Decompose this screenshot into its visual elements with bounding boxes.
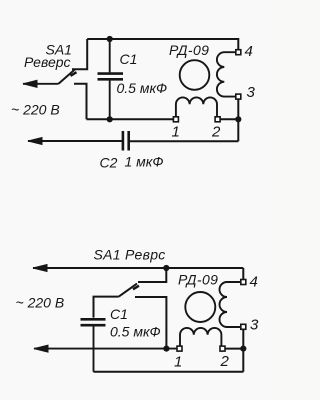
wire top rail line A with left arrow (33, 265, 243, 272)
switch SA1 pole wire (94, 297, 119, 318)
svg-text:3: 3 (250, 317, 259, 334)
wire top rail (87, 39, 238, 50)
terminal 4 (236, 50, 241, 55)
svg-text:1: 1 (172, 124, 180, 141)
capacitor C1 (98, 39, 124, 119)
wire mid rail to terminal 1 (87, 118, 175, 120)
wire bottom rail (94, 371, 244, 373)
winding L1 (terminals 1-2) (180, 328, 221, 346)
terminal 4 (241, 280, 246, 285)
svg-text:0.5 мкФ: 0.5 мкФ (110, 324, 161, 340)
capacitor C1 (81, 319, 106, 372)
wire bottom rail right segment (129, 140, 238, 142)
wire terminal 3 down to right node and down to bottom rail (237, 99, 239, 142)
svg-text:1 мкФ: 1 мкФ (125, 154, 164, 170)
svg-text:2: 2 (211, 124, 221, 141)
svg-text:~ 220 В: ~ 220 В (11, 102, 60, 118)
winding L2 (terminals 3-4) (217, 52, 236, 96)
switch SA1 lower contact down to rail B (135, 297, 166, 349)
wire ~220V line A with left arrow (23, 80, 59, 87)
svg-text:РД-09: РД-09 (169, 42, 209, 58)
terminal 3 (236, 94, 241, 99)
svg-text:SA1 Реврс: SA1 Реврс (94, 247, 166, 263)
wire top rail corner to terminal 4 (242, 268, 244, 280)
winding L1 (terminals 1-2) (176, 97, 217, 117)
switch SA1 upper contact (from rail) (138, 268, 166, 282)
switch SA1 lever (59, 70, 77, 84)
svg-text:4: 4 (245, 43, 253, 60)
wire terminal 3 down to junction (242, 329, 244, 372)
svg-text:РД-09: РД-09 (178, 272, 218, 288)
svg-text:~ 220 В: ~ 220 В (16, 295, 65, 311)
svg-text:Реверс: Реверс (24, 54, 71, 70)
terminal 1 (173, 117, 178, 122)
wire ~220V line B with left arrow (28, 138, 123, 145)
svg-text:3: 3 (247, 84, 256, 101)
motor РД-09 rotor circle (185, 292, 215, 322)
wire terminal 2 to junction (224, 348, 243, 350)
node switch feed junction (163, 265, 169, 271)
svg-text:2: 2 (220, 353, 230, 370)
node terminals 2-3 junction (240, 346, 246, 352)
terminal 2 (215, 117, 220, 122)
capacitor C2 (123, 131, 129, 151)
svg-text:С2: С2 (100, 155, 118, 171)
svg-text:4: 4 (250, 274, 258, 291)
wire ~220V line B with left arrow to terminal 1 (34, 345, 178, 352)
node lower contact junction (163, 346, 169, 352)
wire terminal 2 to right node (219, 118, 238, 120)
svg-text:1: 1 (174, 354, 182, 371)
svg-text:С1: С1 (110, 306, 128, 322)
node C1 top junction (107, 36, 113, 42)
terminal 3 (241, 324, 246, 329)
motor РД-09 rotor circle (180, 60, 210, 90)
node terminals 2-3 junction (235, 116, 241, 122)
terminal 1 (177, 346, 182, 351)
terminal 2 (220, 346, 225, 351)
switch SA1 upper contact to top rail (72, 39, 87, 69)
svg-text:0.5 мкФ: 0.5 мкФ (117, 80, 168, 96)
switch SA1 lever (119, 284, 139, 297)
switch SA1 lower contact (74, 84, 87, 120)
svg-text:С1: С1 (120, 51, 138, 67)
winding L2 (terminals 3-4) (220, 282, 241, 327)
node C1 bottom junction (107, 116, 113, 122)
